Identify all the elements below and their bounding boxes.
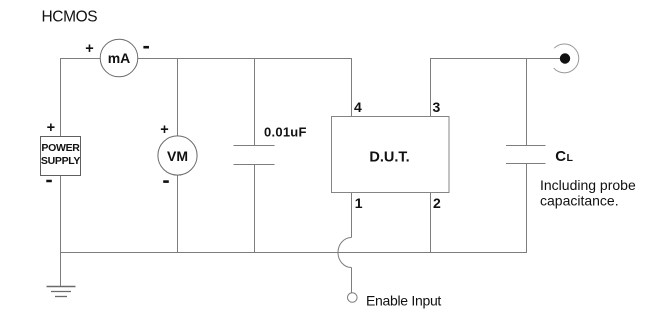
svg-text:CL: CL [555,148,573,165]
svg-text:1: 1 [355,195,363,211]
output probe connector [554,44,579,73]
label - (ammeter) [143,46,149,49]
wire pin 4 drop [351,58,353,117]
wire pin 3 drop [430,58,432,117]
wire CL branch lower [526,164,528,254]
wire 0.01uF capacitor branch lower [254,165,256,254]
wire pin 2 to bottom bus [430,193,432,254]
wire CL branch upper [526,58,528,146]
ground [47,287,76,297]
D.U.T. box U1 [332,117,450,193]
svg-text:mA: mA [108,50,131,66]
svg-text:POWER: POWER [41,142,80,154]
svg-text:Including probe: Including probe [540,177,636,193]
svg-text:3: 3 [433,99,441,115]
capacitor CL top plate [506,145,546,147]
capacitor CL bottom plate [506,163,546,165]
svg-text:D.U.T.: D.U.T. [369,150,409,166]
svg-text:VM: VM [167,148,188,164]
svg-text:SUPPLY: SUPPLY [41,155,81,167]
ammeter mA [100,39,138,77]
wire pin 1 lower segment to enable terminal [351,268,353,293]
label - (power supply) [46,180,52,183]
svg-text:+: + [85,41,93,57]
enable input terminal [348,293,358,303]
wire bottom bus [61,252,527,254]
wire pin 1 hop over bottom bus [338,238,352,268]
wire VM branch vertical [177,58,179,253]
svg-text:+: + [47,120,55,136]
svg-text:Enable Input: Enable Input [366,292,441,308]
svg-text:2: 2 [433,195,441,211]
voltmeter VM [158,136,197,175]
wire pin 1 upper segment [351,193,353,238]
svg-text:capacitance.: capacitance. [540,193,619,209]
power supply box [41,137,81,176]
wire top bus left segment [61,58,352,60]
wire top bus right segment [431,58,562,60]
wire left vertical (supply branch) [60,58,62,287]
svg-text:HCMOS: HCMOS [42,8,98,25]
label - (voltmeter) [163,180,169,183]
svg-text:4: 4 [354,99,362,115]
svg-text:0.01uF: 0.01uF [264,125,307,140]
wire 0.01uF capacitor branch upper [254,58,256,146]
capacitor C 0.01uF top plate [234,145,275,147]
svg-text:+: + [160,122,168,138]
capacitor C 0.01uF bottom plate [234,164,275,166]
